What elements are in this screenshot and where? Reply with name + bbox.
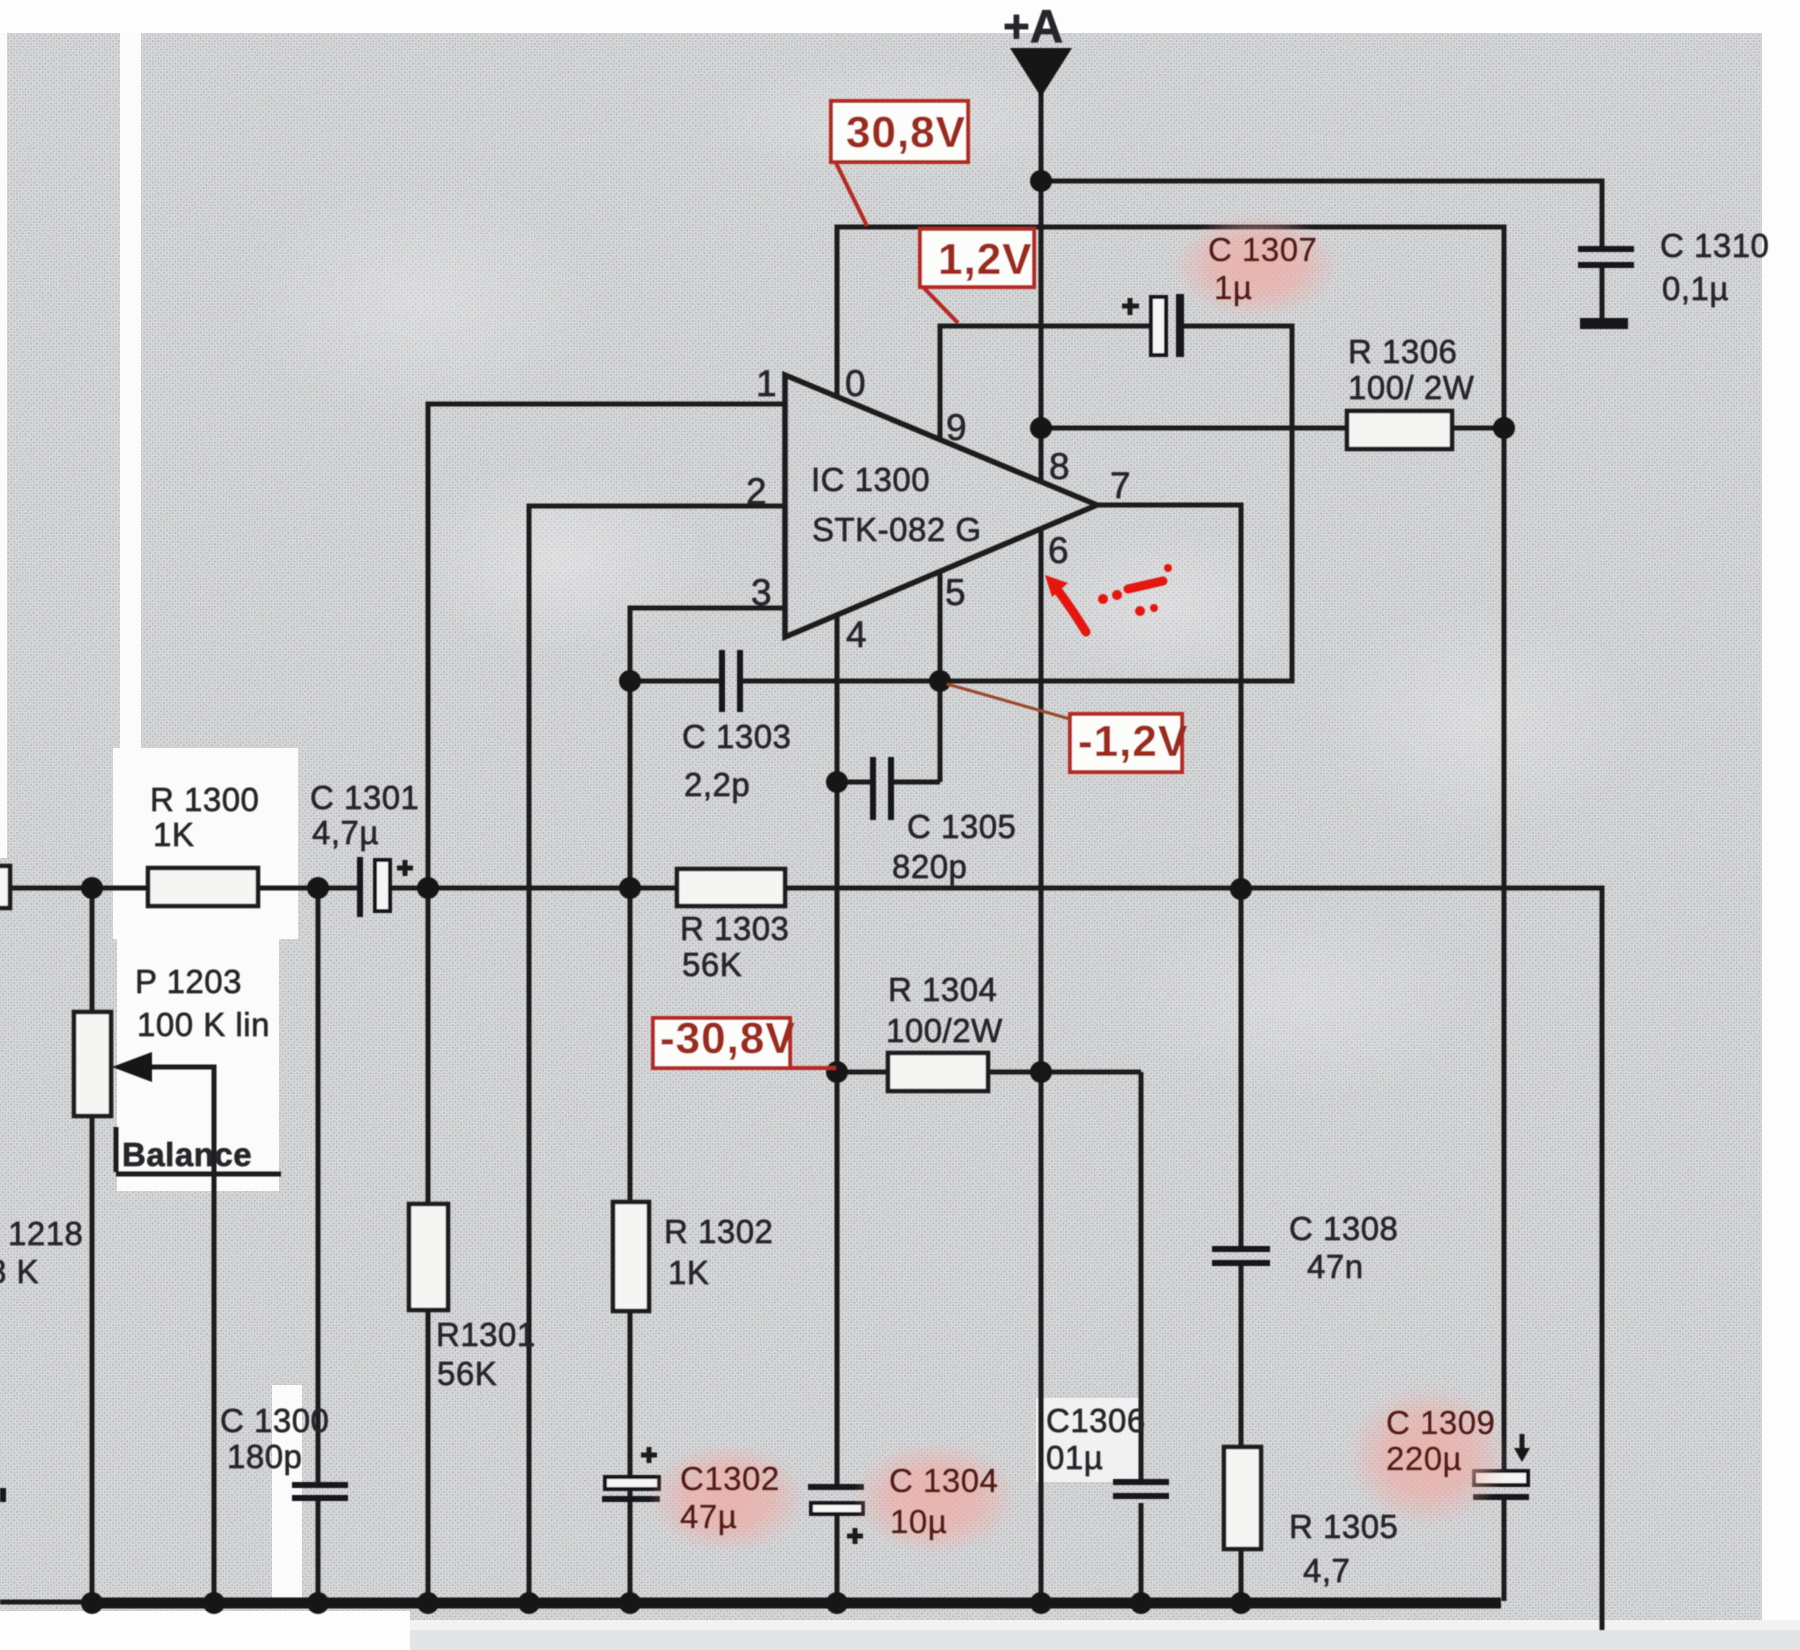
junction R1304 right — [1030, 1061, 1052, 1083]
svg-text:100/2W: 100/2W — [886, 1012, 1003, 1049]
junction rail x428 — [417, 1592, 439, 1614]
red pen arrow scribble — [1056, 588, 1086, 632]
svg-text:0,1µ: 0,1µ — [1662, 270, 1729, 307]
resistor R1306 — [1347, 411, 1452, 449]
potentiometer P1203 body — [74, 1012, 111, 1116]
junction R1304 left — [826, 1061, 848, 1083]
white correction strip upper — [120, 33, 141, 750]
wire: pin2 drop — [529, 506, 785, 1603]
op-amp IC1300 triangle — [785, 375, 1097, 637]
bottom white band left — [0, 1611, 410, 1650]
resistor R1300 — [148, 868, 258, 906]
capacitor C1306 plates — [1113, 1479, 1169, 1485]
svg-text:5: 5 — [945, 572, 966, 613]
wire: output pin7 loop — [1097, 505, 1241, 888]
svg-text:3: 3 — [751, 572, 772, 613]
wire: R1306 row y428 — [1041, 426, 1504, 431]
wire: C1308 to R1305 — [1239, 1266, 1244, 1447]
resistor R1305 — [1224, 1447, 1261, 1549]
capacitor C1309 plates — [1474, 1471, 1528, 1485]
wire: x92 pot column — [90, 888, 95, 1603]
capacitor C1307 polarity — [1122, 298, 1139, 315]
voltage callout -30,8V — [653, 1018, 790, 1068]
capacitor C1304 plates — [808, 1484, 864, 1490]
junction +A / top rail — [1030, 170, 1052, 192]
wire: R1304 row y1072 — [837, 1070, 1141, 1075]
svg-text:56K: 56K — [437, 1355, 497, 1392]
capacitor C1301 polarity — [397, 860, 413, 876]
junction pin3 / C1303 — [619, 670, 641, 692]
junction main rail / C1300 — [307, 877, 329, 899]
svg-text:1K: 1K — [668, 1254, 709, 1291]
svg-text:180p: 180p — [227, 1438, 302, 1475]
svg-text:P 1203: P 1203 — [135, 963, 242, 1000]
svg-text:C 1304: C 1304 — [889, 1462, 998, 1499]
svg-text:+A: +A — [1003, 0, 1063, 52]
wire: R1305 to rail — [1239, 1549, 1244, 1603]
top white band — [0, 0, 1800, 33]
wire: pin5 drop — [938, 571, 943, 782]
svg-text:47µ: 47µ — [680, 1498, 737, 1535]
svg-text:Balance: Balance — [122, 1136, 252, 1173]
junction rail x214 — [203, 1592, 225, 1614]
svg-text:1218: 1218 — [8, 1215, 83, 1252]
Balance underline — [116, 1172, 281, 1177]
junction rail x837 — [826, 1592, 848, 1614]
svg-text:1: 1 — [756, 363, 777, 404]
svg-text:R 1306: R 1306 — [1348, 333, 1457, 370]
wire: top rail y181 to C1310 — [1041, 181, 1602, 246]
resistor R1304 — [888, 1053, 988, 1091]
wire: C1305 row y782 — [837, 780, 940, 785]
wire: pin0 loop y227 — [837, 227, 1504, 428]
svg-text:C 1310: C 1310 — [1660, 227, 1769, 264]
white patch around P1203 / Balance — [117, 938, 279, 1191]
pink highlight C1304 — [853, 1442, 1017, 1554]
svg-text:8 K: 8 K — [0, 1253, 39, 1290]
voltage callout -1,2V — [1070, 714, 1182, 772]
junction +A / R1306 row — [1030, 417, 1052, 439]
wire: main signal rail y888 — [0, 888, 1602, 1630]
svg-text:4,7: 4,7 — [1303, 1552, 1350, 1589]
pink highlight C1307 — [1174, 214, 1338, 318]
light paper blotches — [1035, 525, 1295, 685]
wire: x1504 drop to C1309 — [1502, 428, 1507, 1471]
capacitor C1310 plates — [1578, 246, 1634, 252]
svg-text:9: 9 — [946, 407, 967, 448]
svg-text:6: 6 — [1048, 530, 1069, 571]
svg-text:C 1300: C 1300 — [220, 1402, 329, 1439]
wire: pin3 drop — [630, 608, 785, 681]
left edge tick — [0, 1488, 6, 1502]
pink highlight C1302 — [650, 1443, 806, 1553]
resistor R1302 — [613, 1202, 649, 1311]
capacitor C1307 plates — [1151, 297, 1166, 355]
svg-text:C 1308: C 1308 — [1289, 1210, 1398, 1247]
wire: C1307 right to corner x1292 — [940, 326, 1292, 681]
svg-text:-30,8V: -30,8V — [660, 1014, 796, 1063]
svg-text:4,7µ: 4,7µ — [312, 814, 379, 851]
right white edge band — [1762, 0, 1800, 1650]
svg-text:01µ: 01µ — [1046, 1439, 1103, 1476]
capacitor C1308 plates — [1212, 1246, 1270, 1252]
svg-text:100/ 2W: 100/ 2W — [1348, 369, 1475, 406]
wire: x318 C1300 column — [316, 888, 321, 1603]
capacitor C1303 plates — [719, 650, 725, 712]
svg-text:R 1302: R 1302 — [664, 1213, 773, 1250]
wire: pin4 drop — [835, 615, 840, 1072]
capacitor C1304 polarity — [847, 1528, 863, 1544]
wire: x630 feedback column — [628, 681, 633, 1603]
svg-text:R 1300: R 1300 — [150, 781, 259, 818]
capacitor C1305 plates — [870, 757, 876, 820]
capacitor C1301 plates — [357, 857, 363, 917]
wire: output drop to C1308 — [1239, 888, 1244, 1246]
svg-text:8: 8 — [1049, 446, 1070, 487]
junction pin5 / C1307 loop — [929, 670, 951, 692]
svg-text:2,2p: 2,2p — [684, 766, 750, 803]
junction rail x630 — [619, 1592, 641, 1614]
svg-text:100 K lin: 100 K lin — [137, 1006, 270, 1043]
svg-text:R1301: R1301 — [436, 1316, 536, 1353]
wire: pot wiper tail — [146, 1067, 214, 1603]
svg-text:C1306: C1306 — [1046, 1402, 1146, 1439]
svg-text:2: 2 — [746, 471, 767, 512]
wire: C1309 bottom lead to rail end — [1502, 1500, 1507, 1601]
svg-text:STK-082 G: STK-082 G — [812, 511, 982, 548]
ground rail thin left end — [0, 1600, 90, 1605]
wire: pin9 riser — [940, 326, 1150, 441]
junction rail x92 — [81, 1592, 103, 1614]
junction pin4 / C1305 — [826, 771, 848, 793]
Balance left tick — [114, 1127, 119, 1172]
svg-text:C1302: C1302 — [680, 1460, 780, 1497]
svg-text:56K: 56K — [682, 946, 742, 983]
pink highlight C1309 — [1348, 1386, 1508, 1526]
potentiometer wiper arrow — [112, 1052, 152, 1082]
red pen dots and dash — [1098, 594, 1108, 604]
svg-text:1µ: 1µ — [1214, 269, 1252, 306]
svg-text:R 1303: R 1303 — [680, 910, 789, 947]
voltage callout 30,8V — [831, 101, 968, 162]
bottom band right — [410, 1620, 1800, 1650]
left white edge sliver — [0, 33, 7, 858]
power +A symbol — [1010, 48, 1072, 97]
svg-text:R 1305: R 1305 — [1289, 1508, 1398, 1545]
junction rail x1041 — [1030, 1592, 1052, 1614]
svg-text:30,8V: 30,8V — [846, 108, 966, 157]
resistor (partial, left edge) — [0, 866, 10, 908]
svg-text:1K: 1K — [153, 816, 194, 853]
junction R1306 right / x1504 — [1493, 417, 1515, 439]
voltage callout 1,2V — [920, 229, 1034, 287]
svg-text:4: 4 — [846, 614, 867, 655]
capacitor C1302 plates — [605, 1477, 659, 1489]
wire: pin1 input — [428, 404, 785, 888]
white halo behind C1306 label — [1036, 1398, 1140, 1482]
wire: C1310 lower lead — [1600, 268, 1605, 318]
svg-text:R 1304: R 1304 — [888, 971, 997, 1008]
wire: x428 R1301 column — [426, 888, 431, 1603]
svg-text:C 1301: C 1301 — [310, 779, 419, 816]
capacitor C1310 end bar — [1580, 318, 1628, 329]
resistor R1301 — [409, 1204, 448, 1310]
wire: pin4 line to C1304 — [835, 1072, 840, 1603]
white patch around R1300 label — [113, 748, 298, 939]
svg-text:C 1309: C 1309 — [1386, 1404, 1495, 1441]
junction rail x529 — [518, 1592, 540, 1614]
junction main rail / pin1 column — [417, 877, 439, 899]
wire: C1306 drop — [1139, 1072, 1144, 1603]
svg-text:220µ: 220µ — [1386, 1440, 1462, 1477]
junction main rail / output column — [1230, 878, 1252, 900]
svg-text:-1,2V: -1,2V — [1078, 717, 1188, 766]
svg-text:IC 1300: IC 1300 — [811, 461, 930, 498]
resistor R1303 — [677, 869, 785, 906]
wire: pin6 drop to rail — [1039, 529, 1044, 1603]
junction rail x1241 — [1230, 1592, 1252, 1614]
svg-text:47n: 47n — [1307, 1248, 1364, 1285]
svg-text:C 1307: C 1307 — [1208, 231, 1317, 268]
svg-text:C 1303: C 1303 — [682, 718, 791, 755]
ground rail — [88, 1598, 1501, 1609]
junction main rail / pot — [81, 877, 103, 899]
capacitor C1300 plates — [292, 1482, 348, 1488]
junction main rail / R1303 left — [619, 877, 641, 899]
svg-text:820p: 820p — [892, 848, 967, 885]
wire: C1303 row y681 — [630, 679, 940, 684]
svg-text:C 1305: C 1305 — [907, 808, 1016, 845]
svg-text:7: 7 — [1110, 465, 1131, 506]
junction rail x318 — [307, 1592, 329, 1614]
junction rail x1141 — [1130, 1592, 1152, 1614]
svg-text:10µ: 10µ — [890, 1503, 947, 1540]
capacitor C1302 polarity — [641, 1447, 657, 1463]
wire: +A vertical to pin 8 — [1039, 92, 1044, 483]
white strip near C1300 — [272, 1385, 302, 1603]
svg-text:0: 0 — [845, 363, 866, 404]
svg-text:1,2V: 1,2V — [938, 235, 1033, 284]
capacitor C1309 polarity arrow — [1520, 1434, 1525, 1450]
